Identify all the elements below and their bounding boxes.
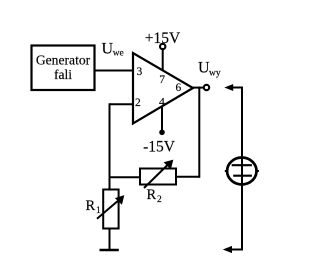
svg-text:-15V: -15V: [143, 139, 176, 156]
wire: right branch top horizontal with arrow to output: [224, 84, 243, 91]
svg-text:U: U: [102, 41, 114, 58]
svg-text:fali: fali: [54, 67, 72, 82]
+15V terminal circle: [160, 44, 165, 49]
generator box "Generator fali": [32, 46, 95, 91]
wire: pin 2 horizontal: [110, 103, 135, 105]
pin label 2: [135, 97, 141, 109]
ground: [100, 249, 119, 251]
svg-text:1: 1: [96, 206, 101, 216]
wire: generator output to op-amp pin 3: [95, 70, 134, 72]
svg-text:6: 6: [176, 82, 182, 94]
-15V terminal dot: [159, 130, 165, 136]
resistor R2 (adjustable) body: [140, 169, 176, 185]
svg-text:3: 3: [137, 66, 143, 78]
node Uwy label: [198, 60, 221, 79]
resistor R2 adjust arrow: [144, 161, 173, 189]
svg-text:R: R: [147, 187, 157, 203]
svg-text:2: 2: [135, 97, 141, 109]
wire: +15V terminal to pin 7: [162, 50, 164, 71]
R1 value label: [86, 198, 102, 216]
wire: inverting input node vertical down to R1: [109, 103, 111, 190]
wire: feedback vertical from output node down to R2: [198, 87, 200, 178]
pin label 7: [159, 74, 165, 86]
wire: R1 bottom to ground: [109, 229, 111, 251]
svg-text:2: 2: [157, 195, 162, 205]
svg-text:Generator: Generator: [36, 53, 91, 68]
op-amp U1 triangle: [133, 53, 193, 124]
wire: op-amp output (pin 6) to output terminal: [192, 87, 204, 89]
R2 value label: [147, 187, 163, 205]
resistor R1 (adjustable) body: [103, 190, 118, 229]
-15V label: [143, 139, 176, 156]
wire: right branch vertical: [241, 87, 243, 251]
svg-text:R: R: [86, 198, 96, 214]
wire: branch to R2 left: [109, 176, 142, 178]
wire: right branch bottom horizontal with arrow: [223, 246, 243, 253]
svg-text:we: we: [113, 49, 124, 59]
wire: pin 4 to -15V: [161, 107, 163, 133]
svg-text:wy: wy: [209, 69, 221, 79]
pin label 4: [159, 97, 165, 109]
output terminal circle: [204, 85, 209, 90]
pin label 3: [137, 66, 143, 78]
+15V label: [145, 30, 181, 47]
wire: R2 right to feedback node: [176, 176, 200, 178]
measuring instrument (electrostatic voltmeter) circle: [225, 158, 259, 185]
node Uwe label: [102, 41, 124, 59]
svg-text:7: 7: [159, 74, 165, 86]
pin label 6: [176, 82, 182, 94]
resistor R1 adjust arrow: [97, 196, 124, 219]
